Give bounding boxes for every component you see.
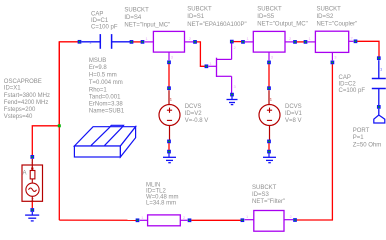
wire S4 bias to V2 <box>168 64 170 87</box>
svg-text:SUBCKT: SUBCKT <box>124 7 149 13</box>
svg-text:Name=SUB1: Name=SUB1 <box>89 109 125 115</box>
svg-text:ID=C2: ID=C2 <box>339 81 357 87</box>
svg-text:Fstart=3800 MHz: Fstart=3800 MHz <box>4 93 50 99</box>
label CAP C1 <box>91 12 118 31</box>
label MLIN TL2 <box>146 183 179 207</box>
svg-text:SUBCKT: SUBCKT <box>187 7 212 13</box>
ground below V1 <box>263 153 276 162</box>
label SUBCKT S4 <box>124 7 170 28</box>
wire S5 to S2 <box>297 41 304 43</box>
svg-text:Er=9.8: Er=9.8 <box>89 65 108 71</box>
svg-text:DCVS: DCVS <box>185 104 202 110</box>
label SUBCKT S3 <box>252 185 285 205</box>
svg-text:ID=S4: ID=S4 <box>124 15 142 21</box>
junction at left rail <box>58 124 61 127</box>
svg-text:ID=S1: ID=S1 <box>187 14 205 20</box>
node C2 pin1 <box>378 57 381 60</box>
node S2 pin3 <box>331 61 334 64</box>
wire top-left from corner to C1 <box>59 42 78 126</box>
svg-text:ErNom=3.38: ErNom=3.38 <box>89 102 124 108</box>
DC source V1 <box>259 90 280 140</box>
node FET drain <box>231 40 234 43</box>
ground below OSCAPROBE <box>25 212 39 221</box>
node S5 pin1 <box>242 41 245 44</box>
node C2 pin2 / port <box>378 106 381 109</box>
label MSUB <box>89 58 125 114</box>
wire S2 to C2 <box>357 41 379 56</box>
subcircuit S5 box <box>245 31 293 60</box>
svg-text:ID=C1: ID=C1 <box>91 18 109 24</box>
label DCVS V2 <box>185 104 209 124</box>
node V2 ground <box>168 150 171 153</box>
label SUBCKT S5 <box>257 7 307 28</box>
node V1 pin2 <box>268 140 271 143</box>
node S4 pin3 <box>168 61 171 64</box>
svg-text:OSCAPROBE: OSCAPROBE <box>4 79 42 85</box>
svg-text:H=0.5 mm: H=0.5 mm <box>89 73 117 79</box>
svg-text:V=-0.8 V: V=-0.8 V <box>185 118 209 124</box>
node OSCAPROBE top <box>31 156 34 159</box>
label SUBCKT S2 <box>317 6 358 27</box>
node S5 pin3 <box>268 61 271 64</box>
svg-text:L=34.8 mm: L=34.8 mm <box>146 200 176 206</box>
svg-text:CAP: CAP <box>91 12 103 18</box>
label OSCAPROBE <box>4 79 50 120</box>
node V1 pin1 <box>268 87 271 90</box>
node V2 pin2 <box>168 140 171 143</box>
svg-text:C=100 pF: C=100 pF <box>91 24 118 30</box>
node FET source <box>231 93 234 96</box>
svg-text:ID=S3: ID=S3 <box>252 192 270 198</box>
svg-text:P=1: P=1 <box>353 135 365 141</box>
node S5 pin2 <box>294 41 297 44</box>
svg-text:Vsteps=40: Vsteps=40 <box>4 114 33 120</box>
transistor subcircuit S1 (FET symbol) <box>208 43 236 93</box>
svg-text:NET="Input_MC": NET="Input_MC" <box>124 22 170 28</box>
oscillator probe X1 <box>22 159 43 202</box>
svg-text:Tand=0.001: Tand=0.001 <box>89 94 121 100</box>
wire MLIN to S3 <box>191 219 241 221</box>
svg-text:C=100 pF: C=100 pF <box>339 88 366 94</box>
svg-text:SUBCKT: SUBCKT <box>317 6 342 12</box>
wire FET drain to S5 <box>234 41 242 43</box>
wire branch to OSCAPROBE <box>32 126 59 156</box>
node S4 pin1 <box>141 41 144 44</box>
wire left vertical rail <box>58 42 60 220</box>
wire bottom rail to MLIN <box>59 219 136 221</box>
svg-text:ID=V1: ID=V1 <box>285 111 303 117</box>
subcircuit S3 box <box>245 211 293 232</box>
svg-text:V=8 V: V=8 V <box>285 118 302 124</box>
node MLIN pin2 <box>188 219 191 222</box>
wire C1 to S4 <box>133 41 141 43</box>
svg-text:Z=50 Ohm: Z=50 Ohm <box>353 143 382 149</box>
svg-text:DCVS: DCVS <box>285 104 302 110</box>
wire S3 to right rail up to S2 coupled port <box>297 64 333 220</box>
ground at FET source <box>227 96 238 104</box>
subcircuit S2 box <box>308 31 354 60</box>
label CAP C2 <box>339 75 366 94</box>
port P1 <box>374 109 385 123</box>
node S2 pin2 <box>354 40 357 43</box>
node V2 pin1 <box>168 87 171 90</box>
node S2 pin1 <box>304 41 307 44</box>
microstrip line TL2 <box>140 215 188 226</box>
DC source V2 <box>159 90 180 140</box>
svg-text:NET="EPA160A100P": NET="EPA160A100P" <box>187 22 246 28</box>
svg-text:MSUB: MSUB <box>89 58 106 64</box>
capacitor C1 <box>81 34 130 49</box>
svg-text:PORT: PORT <box>353 128 370 134</box>
node MLIN pin1 <box>136 219 139 222</box>
substrate MSUB icon <box>74 125 135 157</box>
svg-text:SUBCKT: SUBCKT <box>252 185 277 191</box>
node FET gate <box>205 65 208 68</box>
svg-text:Fsteps=200: Fsteps=200 <box>4 107 36 113</box>
svg-text:ID=V2: ID=V2 <box>185 111 203 117</box>
node V1 ground <box>268 150 271 153</box>
label PORT <box>353 128 382 149</box>
ground below V2 <box>163 153 176 162</box>
node OSCAPROBE ground <box>31 209 34 212</box>
svg-text:Fend=4200 MHz: Fend=4200 MHz <box>4 100 49 106</box>
svg-text:A: A <box>23 171 27 177</box>
node C1 pin2 <box>130 41 133 44</box>
svg-text:T=0.004 mm: T=0.004 mm <box>89 80 123 86</box>
label SUBCKT S1 <box>187 7 246 29</box>
svg-text:ID=X1: ID=X1 <box>4 86 22 92</box>
label DCVS V1 <box>285 104 303 124</box>
node C1 pin1 <box>78 41 81 44</box>
svg-text:NET="Coupler": NET="Coupler" <box>317 22 358 28</box>
subcircuit S4 box <box>145 31 194 60</box>
capacitor C2 <box>372 60 386 105</box>
wire V1 to ground node <box>268 143 270 150</box>
wire S4 to FET gate <box>197 42 205 66</box>
svg-text:CAP: CAP <box>339 75 351 81</box>
svg-text:SUBCKT: SUBCKT <box>257 7 282 13</box>
wire OSCAPROBE to ground node <box>31 201 33 208</box>
node S3 pin1 <box>241 219 244 222</box>
node S4 pin2 <box>194 41 197 44</box>
wire V2 to ground node <box>168 143 170 150</box>
wire S5 bias to V1 <box>268 64 270 87</box>
svg-text:ID=S2: ID=S2 <box>317 14 335 20</box>
node S3 pin2 <box>294 219 297 222</box>
svg-text:NET="Filter": NET="Filter" <box>252 199 285 205</box>
svg-text:ID=S5: ID=S5 <box>257 14 275 20</box>
svg-text:NET="Output_MC": NET="Output_MC" <box>257 22 307 28</box>
svg-text:Rho=1: Rho=1 <box>89 87 108 93</box>
